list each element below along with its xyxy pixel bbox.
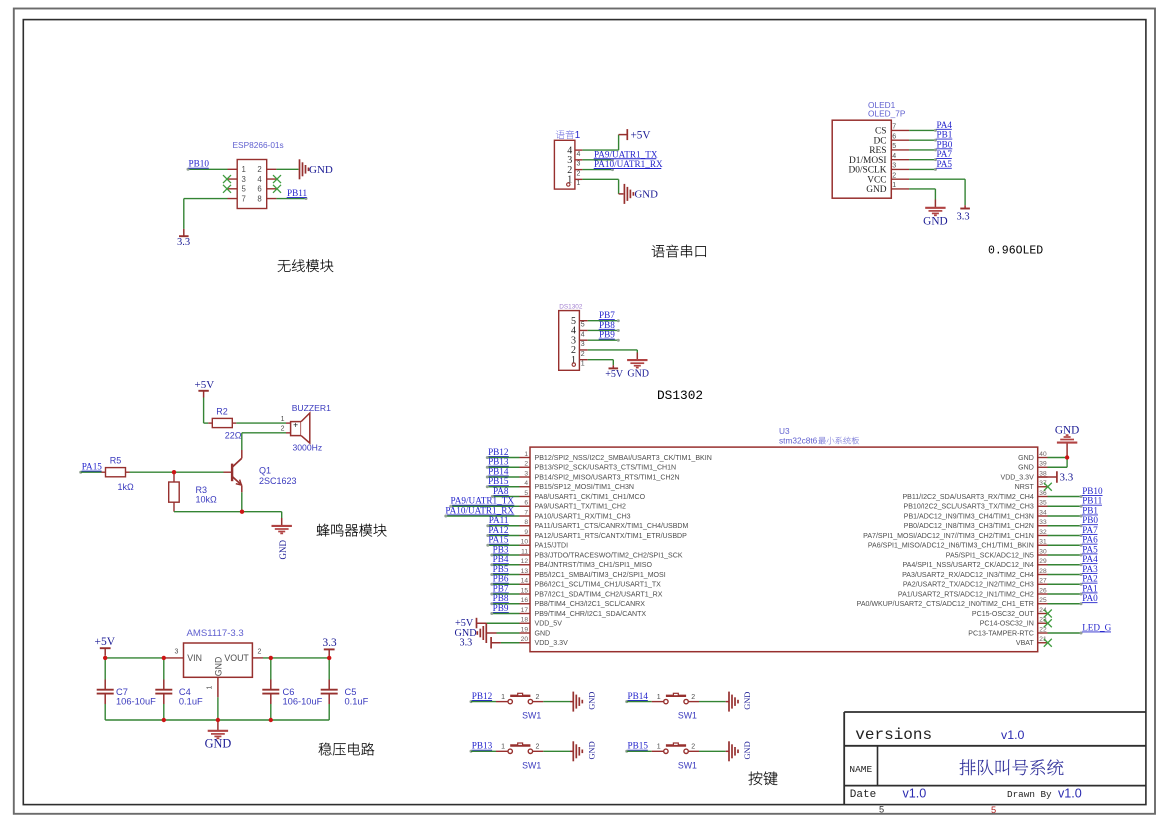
svg-text:VDD_5V: VDD_5V (535, 621, 563, 628)
svg-text:3.3: 3.3 (177, 237, 190, 248)
svg-text:10kΩ: 10kΩ (196, 494, 218, 504)
svg-text:PA4: PA4 (1082, 554, 1098, 564)
svg-text:2: 2 (536, 744, 540, 751)
svg-text:40: 40 (1039, 451, 1047, 458)
svg-text:28: 28 (1039, 568, 1047, 575)
svg-text:GND: GND (309, 164, 333, 176)
svg-text:PB14: PB14 (628, 691, 649, 701)
svg-text:PB5/I2C1_SMBAI/TIM3_CH2/SPI1_M: PB5/I2C1_SMBAI/TIM3_CH2/SPI1_MOSI (535, 572, 666, 579)
svg-text:+: + (293, 419, 298, 429)
svg-text:PB14: PB14 (488, 466, 509, 476)
svg-text:PA5: PA5 (937, 159, 953, 169)
svg-text:PA5: PA5 (1082, 544, 1098, 554)
svg-text:PB13: PB13 (472, 741, 493, 751)
svg-text:PA9/UATR1_TX: PA9/UATR1_TX (594, 149, 658, 159)
svg-text:16: 16 (521, 597, 529, 604)
svg-text:NRST: NRST (1015, 484, 1035, 491)
svg-text:PA3: PA3 (1082, 564, 1098, 574)
svg-text:PB10: PB10 (1082, 486, 1103, 496)
svg-text:PA6: PA6 (1082, 535, 1098, 545)
svg-text:33: 33 (1039, 519, 1047, 526)
svg-text:ESP8266-01s: ESP8266-01s (233, 140, 284, 150)
svg-text:37: 37 (1039, 480, 1047, 487)
svg-text:13: 13 (521, 568, 529, 575)
svg-text:0.96OLED: 0.96OLED (988, 244, 1043, 257)
svg-text:PA7: PA7 (937, 149, 953, 159)
svg-text:R3: R3 (196, 485, 208, 495)
svg-text:2: 2 (258, 648, 262, 655)
svg-text:9: 9 (524, 529, 528, 536)
svg-text:7: 7 (524, 509, 528, 516)
svg-text:5: 5 (879, 805, 884, 815)
svg-text:PA2: PA2 (1082, 574, 1098, 584)
svg-text:3: 3 (175, 648, 179, 655)
svg-text:PB8: PB8 (493, 593, 509, 603)
svg-text:PA0: PA0 (1082, 593, 1098, 603)
svg-text:VDD_3.3V: VDD_3.3V (535, 640, 569, 647)
svg-text:1: 1 (501, 694, 505, 701)
svg-text:SW1: SW1 (678, 711, 697, 721)
svg-text:PA0/WKUP/USART2_CTS/ADC12_IN0/: PA0/WKUP/USART2_CTS/ADC12_IN0/TIM2_CH1_E… (857, 601, 1034, 608)
svg-text:1: 1 (575, 130, 580, 141)
svg-text:C7: C7 (116, 687, 128, 697)
svg-text:C6: C6 (283, 687, 295, 697)
svg-text:2: 2 (691, 744, 695, 751)
svg-text:VDD_3.3V: VDD_3.3V (1001, 474, 1035, 481)
svg-text:22Ω: 22Ω (225, 431, 242, 441)
svg-text:PA15/JTDI: PA15/JTDI (535, 543, 569, 550)
svg-text:SW1: SW1 (522, 760, 541, 770)
svg-text:GND: GND (923, 215, 947, 227)
svg-text:PB7: PB7 (599, 310, 615, 320)
svg-text:PA12: PA12 (488, 525, 508, 535)
svg-text:PA8/USART1_CK/TIM1_CH1/MCO: PA8/USART1_CK/TIM1_CH1/MCO (535, 494, 646, 501)
svg-text:stm32c8t6: stm32c8t6 (779, 436, 818, 446)
svg-text:17: 17 (521, 607, 529, 614)
svg-text:23: 23 (1039, 617, 1047, 624)
svg-text:5: 5 (581, 322, 585, 329)
svg-text:1: 1 (207, 686, 214, 690)
svg-text:35: 35 (1039, 500, 1047, 507)
svg-text:14: 14 (521, 578, 529, 585)
svg-text:Q1: Q1 (259, 465, 271, 475)
svg-text:1: 1 (657, 744, 661, 751)
svg-text:21: 21 (1039, 636, 1047, 643)
svg-text:3.3: 3.3 (1060, 471, 1074, 483)
svg-text:GND: GND (1018, 465, 1034, 472)
svg-text:RES: RES (869, 146, 886, 156)
svg-text:GND: GND (205, 737, 232, 751)
svg-text:OLED_7P: OLED_7P (868, 108, 906, 118)
svg-text:GND: GND (627, 369, 649, 380)
svg-text:PA8: PA8 (493, 486, 509, 496)
svg-text:PA5/SPI1_SCK/ADC12_IN5: PA5/SPI1_SCK/ADC12_IN5 (946, 552, 1034, 559)
svg-text:PB1: PB1 (937, 130, 953, 140)
svg-text:GND: GND (866, 185, 887, 195)
svg-text:GND: GND (1018, 455, 1034, 462)
svg-text:U3: U3 (779, 426, 790, 436)
svg-text:+5V: +5V (631, 129, 651, 141)
svg-text:5: 5 (892, 143, 896, 150)
svg-text:SW1: SW1 (522, 711, 541, 721)
svg-text:C5: C5 (345, 687, 357, 697)
svg-text:30: 30 (1039, 548, 1047, 555)
svg-text:PA4/SPI1_NSS/USART2_CK/ADC12_I: PA4/SPI1_NSS/USART2_CK/ADC12_IN4 (902, 562, 1033, 569)
svg-text:GND: GND (214, 657, 224, 677)
svg-text:GND: GND (743, 692, 752, 710)
svg-text:VBAT: VBAT (1016, 640, 1035, 647)
svg-text:PA7/SPI1_MOSI/ADC12_IN7//TIM3_: PA7/SPI1_MOSI/ADC12_IN7//TIM3_CH2/TIM1_C… (863, 533, 1034, 540)
svg-text:25: 25 (1039, 597, 1047, 604)
svg-text:3: 3 (892, 163, 896, 170)
svg-text:6: 6 (892, 133, 896, 140)
svg-text:PB10/I2C2_SCL/USART3_TX/TIM2_C: PB10/I2C2_SCL/USART3_TX/TIM2_CH3 (904, 504, 1034, 511)
svg-text:6: 6 (257, 185, 261, 194)
svg-text:GND: GND (588, 692, 597, 710)
svg-text:PB12: PB12 (472, 691, 493, 701)
svg-text:PA11/USART1_CTS/CANRX/TIM1_CH4: PA11/USART1_CTS/CANRX/TIM1_CH4/USBDM (535, 523, 689, 530)
svg-text:PB15: PB15 (628, 741, 649, 751)
svg-text:3: 3 (581, 341, 585, 348)
svg-text:R5: R5 (110, 456, 122, 466)
svg-text:versions: versions (855, 726, 932, 744)
svg-text:PB0: PB0 (937, 139, 953, 149)
svg-text:2: 2 (536, 694, 540, 701)
svg-text:Date: Date (850, 789, 876, 801)
svg-text:PA10/USART1_RX/TIM1_CH3: PA10/USART1_RX/TIM1_CH3 (535, 513, 631, 520)
svg-text:PA9/USART1_TX/TIM1_CH2: PA9/USART1_TX/TIM1_CH2 (535, 504, 626, 511)
svg-text:2: 2 (257, 165, 261, 174)
svg-text:v1.0: v1.0 (1001, 728, 1025, 742)
svg-text:2: 2 (691, 694, 695, 701)
svg-text:VIN: VIN (187, 653, 202, 663)
svg-text:PC15-OSC32_OUT: PC15-OSC32_OUT (972, 611, 1035, 618)
svg-text:PA15: PA15 (82, 462, 102, 472)
svg-text:PB7/I2C1_SDA/TIM4_CH2/USART1_R: PB7/I2C1_SDA/TIM4_CH2/USART1_RX (535, 591, 663, 598)
svg-text:v1.0: v1.0 (1058, 786, 1082, 800)
svg-text:PB14/SPI2_MISO/USART3_RTS/TIM1: PB14/SPI2_MISO/USART3_RTS/TIM1_CH2N (535, 474, 680, 481)
svg-text:PB9: PB9 (493, 603, 509, 613)
svg-text:PB11: PB11 (287, 188, 307, 198)
svg-text:1: 1 (501, 744, 505, 751)
svg-text:29: 29 (1039, 558, 1047, 565)
svg-text:4: 4 (892, 153, 896, 160)
svg-text:AMS1117-3.3: AMS1117-3.3 (187, 628, 244, 639)
svg-text:106-10uF: 106-10uF (116, 697, 156, 707)
svg-text:+5V: +5V (195, 379, 215, 391)
svg-text:PB12: PB12 (488, 447, 509, 457)
svg-text:27: 27 (1039, 578, 1047, 585)
svg-text:LED_G: LED_G (1082, 622, 1111, 632)
svg-text:32: 32 (1039, 529, 1047, 536)
svg-text:3: 3 (242, 175, 246, 184)
svg-text:GND: GND (278, 540, 288, 560)
svg-text:5: 5 (242, 185, 247, 194)
svg-text:PA1/USART2_RTS/ADC12_IN1/TIM2_: PA1/USART2_RTS/ADC12_IN1/TIM2_CH2 (898, 591, 1034, 598)
svg-text:DS1302: DS1302 (559, 304, 583, 311)
svg-text:GND: GND (743, 741, 752, 759)
svg-text:GND: GND (635, 189, 659, 201)
svg-text:PA1: PA1 (1082, 583, 1098, 593)
svg-text:PB9: PB9 (599, 330, 615, 340)
svg-text:4: 4 (577, 151, 581, 158)
svg-text:VCC: VCC (867, 175, 886, 185)
svg-text:PB3: PB3 (493, 544, 509, 554)
svg-text:Drawn By: Drawn By (1007, 789, 1052, 800)
svg-text:2: 2 (524, 461, 528, 468)
svg-text:PB13/SPI2_SCK/USART3_CTS/TIM1_: PB13/SPI2_SCK/USART3_CTS/TIM1_CH1N (535, 465, 677, 472)
svg-text:PB15: PB15 (488, 476, 509, 486)
svg-text:PB15/SP12_MOSI/TIM1_CH3N: PB15/SP12_MOSI/TIM1_CH3N (535, 484, 634, 491)
svg-text:PB9/TIM4_CHR/I2C1_SDA/CANTX: PB9/TIM4_CHR/I2C1_SDA/CANTX (535, 611, 647, 618)
svg-text:34: 34 (1039, 509, 1047, 516)
svg-text:0.1uF: 0.1uF (179, 697, 203, 707)
svg-text:PB12/SPI2_NSS/I2C2_SMBAI/USART: PB12/SPI2_NSS/I2C2_SMBAI/USART3_CK/TIM1_… (535, 455, 712, 462)
svg-text:7: 7 (892, 124, 896, 131)
svg-text:PA15: PA15 (488, 535, 508, 545)
svg-text:D1/MOSI: D1/MOSI (849, 156, 887, 166)
svg-text:10: 10 (521, 539, 529, 546)
svg-text:GND: GND (1055, 424, 1079, 436)
svg-text:DC: DC (873, 136, 886, 146)
svg-text:NAME: NAME (849, 764, 872, 775)
svg-text:2: 2 (892, 172, 896, 179)
svg-text:PB6: PB6 (493, 574, 509, 584)
svg-text:7: 7 (242, 194, 246, 203)
svg-text:1: 1 (577, 180, 581, 187)
svg-text:3.3: 3.3 (323, 637, 337, 649)
svg-text:1: 1 (581, 361, 585, 368)
svg-text:11: 11 (521, 548, 528, 555)
svg-text:2: 2 (577, 170, 581, 177)
svg-text:18: 18 (521, 617, 529, 624)
svg-text:4: 4 (524, 480, 528, 487)
svg-text:1kΩ: 1kΩ (118, 482, 135, 492)
svg-text:PB8: PB8 (599, 320, 615, 330)
svg-text:GND: GND (535, 630, 551, 637)
svg-text:36: 36 (1039, 490, 1047, 497)
svg-text:PA3/USART2_RX/ADC12_IN3/TIM2_C: PA3/USART2_RX/ADC12_IN3/TIM2_CH4 (902, 572, 1034, 579)
svg-text:1: 1 (281, 416, 285, 423)
svg-text:2: 2 (281, 426, 285, 433)
svg-text:6: 6 (524, 500, 528, 507)
svg-text:39: 39 (1039, 461, 1047, 468)
svg-text:PB0/ADC12_IN8/TIM3_CH3/TIM1_CH: PB0/ADC12_IN8/TIM3_CH3/TIM1_CH2N (904, 523, 1034, 530)
svg-text:PB11: PB11 (1082, 496, 1102, 506)
svg-text:1: 1 (242, 165, 246, 174)
svg-text:8: 8 (524, 519, 528, 526)
svg-text:PB6/I2C1_SCL/TIM4_CH1/USART1_T: PB6/I2C1_SCL/TIM4_CH1/USART1_TX (535, 582, 662, 589)
svg-text:5: 5 (991, 805, 996, 815)
svg-text:DS1302: DS1302 (657, 388, 703, 403)
svg-text:3: 3 (524, 470, 528, 477)
svg-text:D0/SCLK: D0/SCLK (848, 166, 886, 176)
svg-text:PA7: PA7 (1082, 525, 1098, 535)
svg-text:PB5: PB5 (493, 564, 509, 574)
svg-text:20: 20 (521, 636, 529, 643)
svg-text:3.3: 3.3 (957, 211, 970, 222)
svg-text:PA9/UATR1_TX: PA9/UATR1_TX (451, 496, 515, 506)
svg-text:26: 26 (1039, 587, 1047, 594)
svg-text:106-10uF: 106-10uF (283, 697, 323, 707)
svg-text:PA2/USART2_TX/ADC12_IN2/TIM2_C: PA2/USART2_TX/ADC12_IN2/TIM2_CH3 (903, 582, 1034, 589)
svg-text:0.1uF: 0.1uF (345, 697, 369, 707)
svg-text:1: 1 (892, 182, 896, 189)
svg-text:PB4/JNTRST/TIM3_CH1/SPI1_MISO: PB4/JNTRST/TIM3_CH1/SPI1_MISO (535, 562, 653, 569)
svg-text:15: 15 (521, 587, 529, 594)
svg-text:PB1/ADC12_IN9/TIM3_CH4/TIM1_CH: PB1/ADC12_IN9/TIM3_CH4/TIM1_CH3N (904, 513, 1034, 520)
svg-text:BUZZER1: BUZZER1 (292, 403, 331, 413)
svg-text:R2: R2 (216, 407, 228, 417)
svg-text:PC13-TAMPER-RTC: PC13-TAMPER-RTC (968, 630, 1034, 637)
svg-text:v1.0: v1.0 (903, 786, 927, 800)
svg-text:PB0: PB0 (1082, 515, 1098, 525)
svg-text:24: 24 (1039, 607, 1047, 614)
svg-text:3000Hz: 3000Hz (293, 442, 323, 452)
svg-text:1: 1 (657, 694, 661, 701)
svg-text:PA11: PA11 (489, 515, 509, 525)
svg-text:PB4: PB4 (493, 554, 509, 564)
svg-text:2SC1623: 2SC1623 (259, 476, 297, 486)
svg-text:31: 31 (1039, 539, 1047, 546)
svg-text:19: 19 (521, 626, 529, 633)
svg-text:PB10: PB10 (189, 159, 210, 169)
svg-text:+5V: +5V (605, 369, 624, 380)
svg-text:CS: CS (875, 127, 886, 137)
svg-text:12: 12 (521, 558, 529, 565)
svg-text:4: 4 (257, 175, 262, 184)
svg-text:PB3/JTDO/TRACESWO/TIM2_CH2/SPI: PB3/JTDO/TRACESWO/TIM2_CH2/SPI1_SCK (535, 552, 683, 559)
svg-text:PB7: PB7 (493, 583, 509, 593)
svg-text:22: 22 (1039, 626, 1047, 633)
svg-text:1: 1 (524, 451, 528, 458)
svg-text:PB11/I2C2_SDA/USART3_RX/TIM2_C: PB11/I2C2_SDA/USART3_RX/TIM2_CH4 (902, 494, 1033, 501)
svg-text:PA12/USART1_RTS/CANTX/TIM1_ETR: PA12/USART1_RTS/CANTX/TIM1_ETR/USBDP (535, 533, 688, 540)
svg-text:C4: C4 (179, 687, 191, 697)
svg-text:PA4: PA4 (937, 120, 953, 130)
svg-text:PB8/TIM4_CH3/I2C1_SCL/CANRX: PB8/TIM4_CH3/I2C1_SCL/CANRX (535, 601, 646, 608)
svg-text:PB1: PB1 (1082, 505, 1098, 515)
svg-text:+5V: +5V (95, 636, 116, 648)
svg-text:PA6/SPI1_MISO/ADC12_IN6/TIM3_C: PA6/SPI1_MISO/ADC12_IN6/TIM3_CH1/TIM1_BK… (868, 543, 1034, 550)
svg-text:5: 5 (524, 490, 528, 497)
svg-text:3.3: 3.3 (460, 638, 473, 649)
svg-text:PC14-OSC32_IN: PC14-OSC32_IN (980, 621, 1034, 628)
svg-text:PB13: PB13 (488, 457, 509, 467)
svg-text:8: 8 (257, 194, 261, 203)
svg-text:SW1: SW1 (678, 760, 697, 770)
svg-text:VOUT: VOUT (224, 653, 249, 663)
svg-text:GND: GND (588, 741, 597, 759)
svg-text:3: 3 (577, 161, 581, 168)
svg-text:PA10/UATR1_RX: PA10/UATR1_RX (445, 505, 514, 515)
svg-text:2: 2 (581, 351, 585, 358)
svg-text:4: 4 (581, 331, 585, 338)
svg-text:PA10/UATR1_RX: PA10/UATR1_RX (594, 159, 663, 169)
